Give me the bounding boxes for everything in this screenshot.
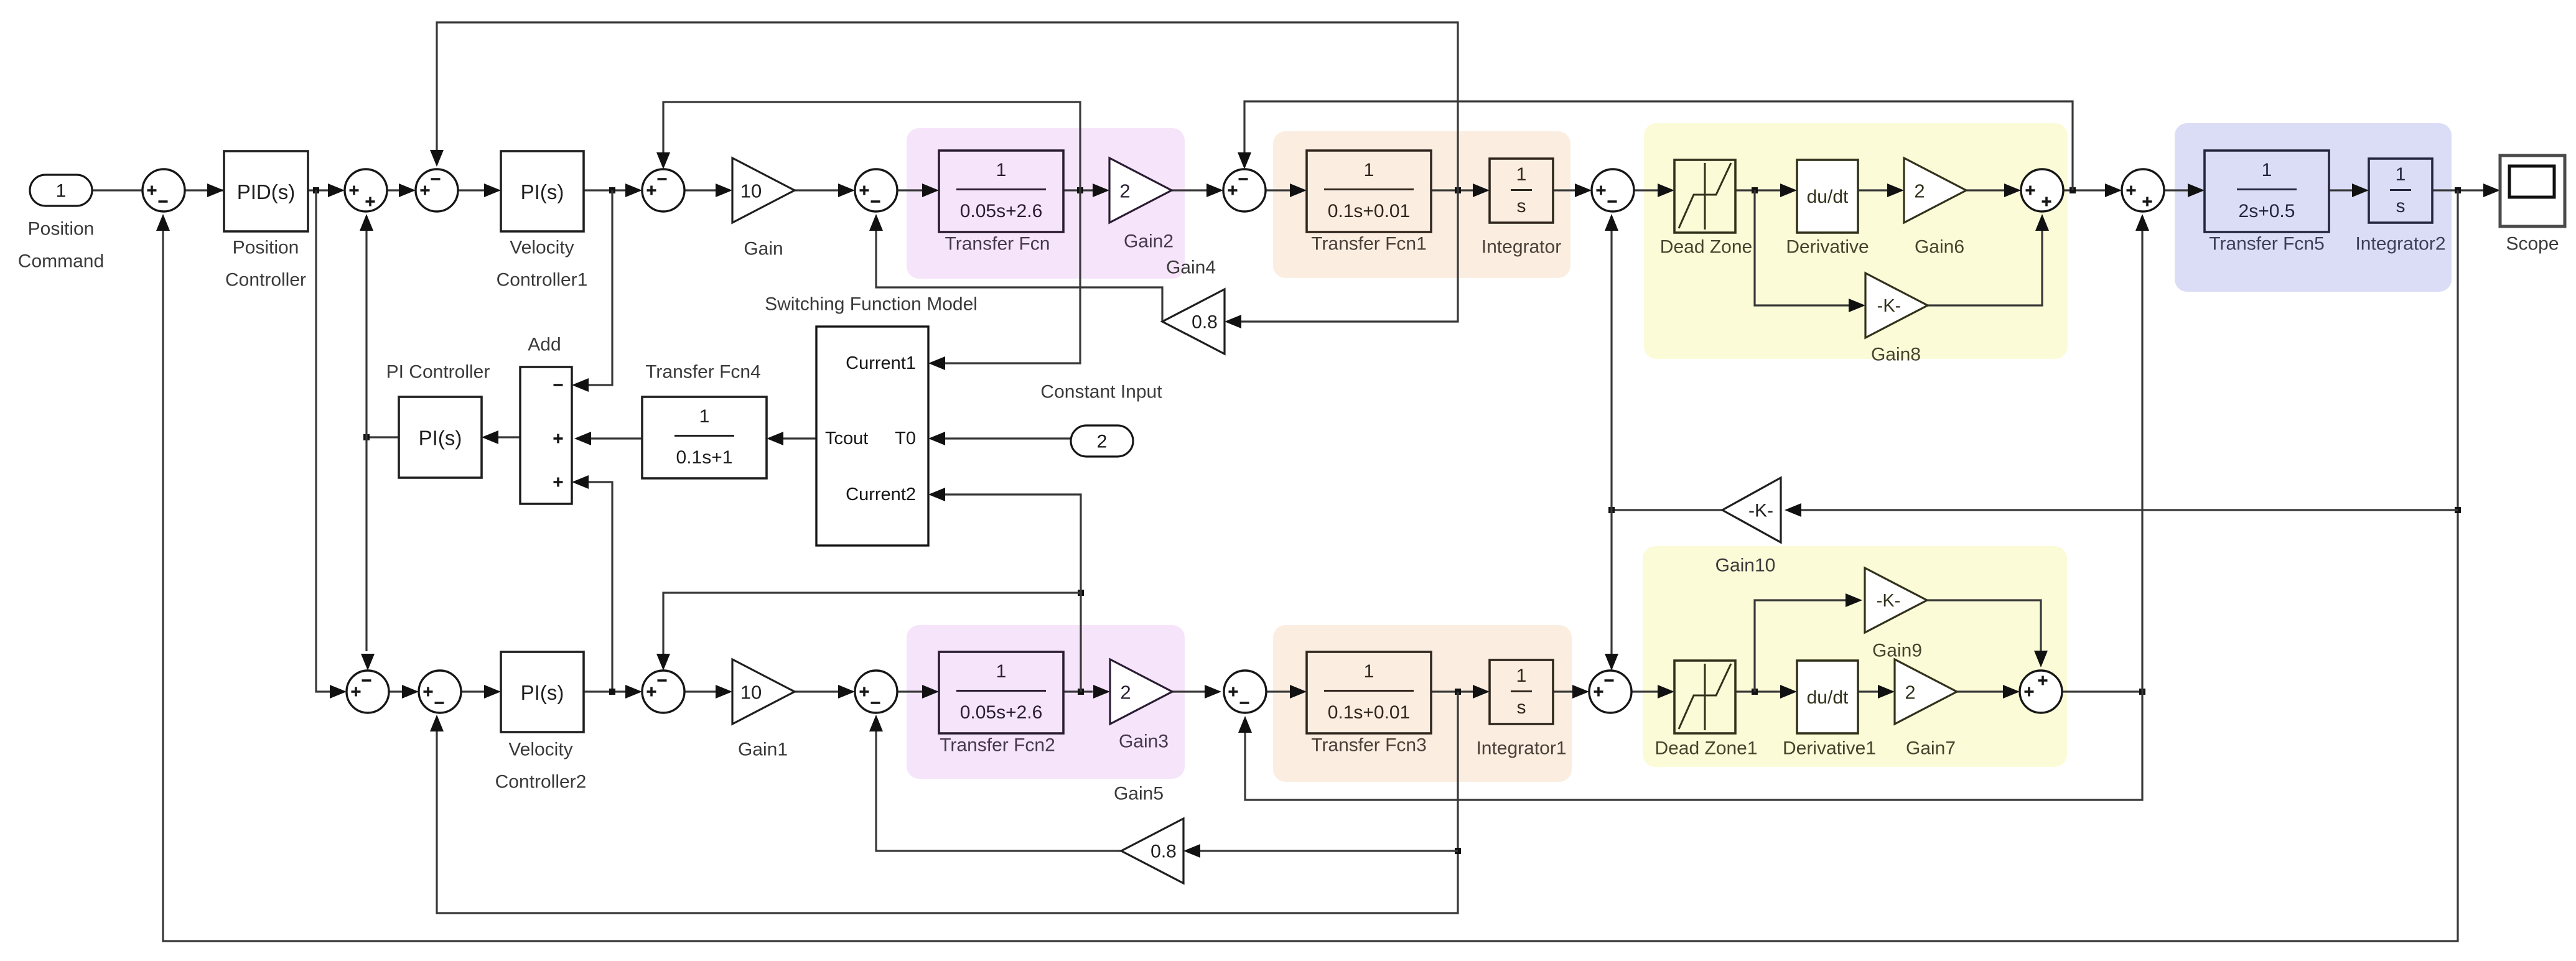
svg-text:10: 10 <box>740 682 762 703</box>
PI controller Velocity Controller1 <box>501 151 584 231</box>
sum7 position minus <box>1592 169 1634 211</box>
gain Gain value 10 <box>732 158 795 223</box>
svg-text:Gain5: Gain5 <box>1114 784 1164 804</box>
wire Sum5 to Transfer Fcn1 <box>1266 189 1290 191</box>
PID controller Position Controller <box>224 151 308 231</box>
svg-text:0.05s+2.6: 0.05s+2.6 <box>960 201 1043 221</box>
wire Gain8 output to Sum7 bottom <box>1928 231 2042 305</box>
sum9 combine channels <box>2122 169 2164 211</box>
transfer fcn Transfer Fcn1 <box>1307 151 1431 232</box>
wire SumD to Transfer Fcn2 <box>897 690 922 692</box>
svg-text:2: 2 <box>1119 180 1130 202</box>
wire Constant Input to T0 <box>945 437 1071 439</box>
svg-text:0.05s+2.6: 0.05s+2.6 <box>960 702 1043 723</box>
sum2 velocity cmd <box>345 169 387 211</box>
wire middle vertical to Sum6 bottom and Sum13 top <box>1610 231 1612 654</box>
wire Dead Zone1 to Derivative1 with branch <box>1735 690 1780 692</box>
svg-text:2: 2 <box>1905 682 1915 703</box>
highlight region orange (Transfer Fcn1 / Integrator) <box>1273 131 1570 278</box>
wire bottom output up to Sum8 bottom <box>2141 231 2143 692</box>
highlight region blue (Transfer Fcn5 / Integrator2) <box>2175 123 2452 292</box>
svg-text:du/dt: du/dt <box>1807 687 1849 708</box>
gain Gain10 value -K- <box>1722 478 1781 542</box>
svg-text:Transfer Fcn2: Transfer Fcn2 <box>940 735 1055 756</box>
add block Add <box>520 367 572 504</box>
svg-text:Controller: Controller <box>225 270 306 290</box>
wire Sum4 to Transfer Fcn <box>897 189 922 191</box>
svg-text:-K-: -K- <box>1877 591 1901 611</box>
derivative block Derivative1 <box>1797 661 1858 733</box>
sum8 after Gain6 <box>2021 169 2063 211</box>
sum position error <box>142 169 185 211</box>
svg-text:Gain3: Gain3 <box>1119 731 1169 752</box>
wire branch up to Gain9 input <box>1755 600 1846 692</box>
PI controller Velocity Controller2 <box>501 652 584 732</box>
svg-text:PI(s): PI(s) <box>521 180 564 203</box>
svg-text:PI Controller: PI Controller <box>386 362 490 383</box>
svg-text:10: 10 <box>740 180 762 202</box>
highlight region yellow (Dead Zone / Derivative / Gain6 / Gain8) <box>1644 123 2068 359</box>
svg-text:Tcout: Tcout <box>825 429 868 448</box>
svg-text:1: 1 <box>2262 160 2272 180</box>
svg-text:Transfer Fcn4: Transfer Fcn4 <box>645 362 761 383</box>
gain Gain6 value 2 <box>1904 158 1966 223</box>
svg-text:Transfer Fcn1: Transfer Fcn1 <box>1311 234 1427 254</box>
svg-text:2: 2 <box>1097 432 1108 452</box>
svg-text:1: 1 <box>996 160 1007 180</box>
highlight region yellow2 (Dead Zone1 / Derivative1 / Gain7 / Gain9) <box>1643 546 2067 767</box>
svg-text:1: 1 <box>1516 164 1527 185</box>
wire Gain to Sum4 <box>795 189 838 191</box>
svg-text:Transfer Fcn3: Transfer Fcn3 <box>1311 735 1427 756</box>
wire Gain3 to SumE <box>1172 690 1205 692</box>
svg-text:2: 2 <box>1120 682 1131 703</box>
wire branch down to Gain8 input <box>1755 190 1849 305</box>
wire Sum8 to Transfer Fcn5 <box>2164 189 2188 191</box>
wire Sum to Position Controller <box>185 189 224 191</box>
wire SumC to Gain1 <box>684 690 716 692</box>
svg-text:Current1: Current1 <box>846 353 916 373</box>
svg-text:Transfer Fcn: Transfer Fcn <box>945 234 1050 254</box>
svg-text:Current2: Current2 <box>846 485 916 504</box>
svg-text:0.1s+0.01: 0.1s+0.01 <box>1328 702 1411 723</box>
highlight region purple (Transfer Fcn / Gain2) <box>907 128 1185 279</box>
wire SumG output to junction <box>2062 690 2142 692</box>
input port 1 Position Command <box>30 175 92 206</box>
svg-text:Integrator2: Integrator2 <box>2355 234 2445 254</box>
wire Transfer Fcn4 to Add plus input <box>591 437 642 439</box>
wire Position Controller to Sum1 with branch <box>308 189 328 191</box>
sum4 current error outer <box>642 169 684 211</box>
svg-text:PID(s): PID(s) <box>237 180 296 203</box>
sumG output sum 2 <box>2020 671 2062 713</box>
wire Sum1 to Sum2 <box>387 189 399 191</box>
wire speed branch down to Gain4 input <box>1241 190 1458 322</box>
highlight region orange2 (Transfer Fcn3 / Integrator1) <box>1273 625 1572 782</box>
svg-text:Transfer Fcn5: Transfer Fcn5 <box>2209 234 2325 254</box>
sumF position minus 2 <box>1589 671 1631 713</box>
svg-text:1: 1 <box>1516 666 1527 686</box>
svg-text:2: 2 <box>1914 180 1925 202</box>
wire current feedback up-left into Sum4 top <box>663 102 1080 190</box>
integrator Integrator1 <box>1490 660 1553 724</box>
svg-text:Dead Zone1: Dead Zone1 <box>1654 738 1757 759</box>
svg-text:du/dt: du/dt <box>1807 187 1849 207</box>
wire Transfer Fcn to Gain2 <box>1063 189 1093 191</box>
integrator Integrator2 <box>2369 159 2432 223</box>
wire Tcout to Transfer Fcn4 <box>783 437 816 439</box>
wire position feedback down and left to Sum bottom <box>163 190 2458 941</box>
wire PI vertical to Sum1 bottom and SumA top <box>365 231 367 651</box>
svg-text:Gain7: Gain7 <box>1906 738 1956 759</box>
svg-text:2s+0.5: 2s+0.5 <box>2239 201 2295 221</box>
transfer fcn Transfer Fcn5 <box>2205 151 2329 232</box>
svg-text:-K-: -K- <box>1877 296 1902 316</box>
wire Integrator2 to Scope with branch <box>2432 189 2483 191</box>
svg-text:1: 1 <box>1364 160 1374 180</box>
svg-text:Command: Command <box>18 251 104 272</box>
sumD current error 2 <box>855 671 897 713</box>
wire Position Command to Sum <box>92 189 142 191</box>
wire Integrator1 to SumF <box>1553 690 1572 692</box>
svg-text:Position: Position <box>28 219 95 239</box>
wire Derivative1 to Gain7 <box>1858 690 1878 692</box>
svg-text:s: s <box>2396 196 2406 216</box>
wire bottom feedback down-left to SumE bottom <box>1245 692 2142 800</box>
gain Gain9 value -K- <box>1865 568 1927 633</box>
wire speed2 feedback down-left to SumB bottom <box>437 692 1458 913</box>
gain Gain7 value 2 <box>1895 659 1957 724</box>
sumB velocity error 2 <box>419 671 461 713</box>
wire Gain9 output to SumG top <box>1927 600 2041 651</box>
sum5 current error <box>855 169 897 211</box>
svg-text:Gain6: Gain6 <box>1915 237 1964 258</box>
svg-text:Gain8: Gain8 <box>1871 345 1921 365</box>
gain Gain1 value 10 <box>732 659 795 724</box>
wire Sum6 to Dead Zone <box>1634 189 1658 191</box>
transfer fcn Transfer Fcn4 <box>642 397 767 478</box>
svg-text:Integrator1: Integrator1 <box>1476 738 1566 759</box>
svg-text:-K-: -K- <box>1748 501 1773 521</box>
svg-text:s: s <box>1517 697 1526 718</box>
svg-text:Dead Zone: Dead Zone <box>1660 237 1752 258</box>
wire Gain2 to Sum5 <box>1172 189 1206 191</box>
wire feedback up-left into Sum5 top <box>1244 101 2073 190</box>
wire speed feedback up to Sum2 top <box>437 22 1458 190</box>
svg-text:Constant Input: Constant Input <box>1040 382 1162 402</box>
gain Gain5 value 0.8 <box>1121 819 1183 883</box>
wire Add output to PI Controller <box>498 436 520 438</box>
wire Integrator to Sum6 <box>1553 189 1575 191</box>
svg-text:Velocity: Velocity <box>510 238 574 258</box>
sum6 torque <box>1223 169 1266 211</box>
svg-text:1: 1 <box>56 181 67 202</box>
svg-text:Gain10: Gain10 <box>1715 555 1776 576</box>
transfer fcn Transfer Fcn2 <box>939 652 1063 733</box>
transfer fcn Transfer Fcn3 <box>1307 652 1431 733</box>
gain Gain8 value -K- <box>1865 273 1928 338</box>
wire branch PID down to bottom Sum <box>316 190 330 692</box>
wire SumE to Transfer Fcn3 <box>1266 690 1290 692</box>
svg-text:PI(s): PI(s) <box>521 681 564 704</box>
constant input oval value 2 <box>1071 425 1133 457</box>
svg-text:Position: Position <box>233 238 299 258</box>
wire Velocity Controller2 to SumC with branch <box>584 690 625 692</box>
PI controller middle PI(s) <box>399 397 482 478</box>
wire Transfer Fcn3 to Integrator1 with branch <box>1431 690 1473 692</box>
wire Gain7 to SumG <box>1957 690 2003 692</box>
svg-text:0.1s+1: 0.1s+1 <box>676 447 733 468</box>
wire Velocity Controller1 to Sum3 with branch <box>584 189 625 191</box>
wire position branch to Gain10 input <box>1801 509 2458 511</box>
svg-text:0.1s+0.01: 0.1s+0.01 <box>1328 201 1411 221</box>
wire Derivative to Gain6 <box>1858 189 1887 191</box>
wire Gain1 to SumD <box>795 690 838 692</box>
svg-text:Controller2: Controller2 <box>495 772 587 792</box>
sum3 velocity error <box>416 169 458 211</box>
svg-text:1: 1 <box>699 406 710 427</box>
wire speed2 branch to Gain5 input <box>1200 850 1458 852</box>
sumA add2 output sum <box>347 671 389 713</box>
wire current2 feedback up-left into SumC top <box>663 593 1081 654</box>
sumC current error outer 2 <box>642 671 684 713</box>
wire Transfer Fcn1 to Integrator with branch <box>1431 189 1473 191</box>
svg-text:Gain1: Gain1 <box>738 740 788 760</box>
wire current branch down to Current1 <box>945 190 1080 363</box>
wire current2 branch up to Current2 port <box>945 494 1081 692</box>
svg-text:Gain9: Gain9 <box>1872 641 1922 661</box>
wire Gain4 output to Sum4 bottom <box>876 231 1162 322</box>
svg-text:PI(s): PI(s) <box>419 427 462 450</box>
sumE torque 2 <box>1224 671 1266 713</box>
integrator Integrator <box>1490 159 1553 223</box>
wire branch VC1 down to Add minus input <box>589 190 612 385</box>
wire Dead Zone to Derivative with branch <box>1735 189 1780 191</box>
svg-text:Derivative: Derivative <box>1786 237 1869 258</box>
svg-text:0.8: 0.8 <box>1150 842 1177 862</box>
wire PI Controller output to vertical <box>366 436 399 438</box>
wire Transfer Fcn2 to Gain3 with branches <box>1063 690 1093 692</box>
svg-text:T0: T0 <box>895 429 916 448</box>
svg-text:Add: Add <box>528 335 561 355</box>
svg-text:Gain2: Gain2 <box>1124 231 1174 252</box>
wire SumA to SumB <box>389 690 402 692</box>
wire Sum3 to Gain <box>684 189 716 191</box>
svg-text:1: 1 <box>2396 164 2406 185</box>
highlight region purple2 (Transfer Fcn2 / Gain3) <box>907 625 1185 779</box>
svg-text:s: s <box>1517 196 1526 216</box>
svg-text:0.8: 0.8 <box>1192 312 1218 333</box>
wire Sum2 to Velocity Controller1 <box>458 189 484 191</box>
svg-text:Integrator: Integrator <box>1482 237 1561 258</box>
wire Add bottom plus from VC2 branch <box>589 482 612 692</box>
wire Gain5 output to SumD bottom <box>876 731 1121 851</box>
svg-text:1: 1 <box>1364 661 1374 682</box>
svg-text:Scope: Scope <box>2506 234 2559 254</box>
svg-text:Switching Function Model: Switching Function Model <box>765 294 978 315</box>
wire Sum7 to Sum8 with branch <box>2063 189 2105 191</box>
wire SumF to Dead Zone1 <box>1631 690 1658 692</box>
svg-text:Controller1: Controller1 <box>497 270 588 290</box>
svg-text:Velocity: Velocity <box>508 740 572 760</box>
wire SumB to Velocity Controller2 <box>461 690 484 692</box>
gain Gain2 value 2 <box>1109 158 1172 223</box>
scope block Scope <box>2500 156 2565 226</box>
dead zone block Dead Zone <box>1674 160 1735 233</box>
subsystem Switching Function Model <box>816 327 928 545</box>
gain Gain4 value 0.8 <box>1162 289 1225 354</box>
wire Gain10 output to middle vertical <box>1612 509 1722 511</box>
svg-text:Gain: Gain <box>744 239 783 259</box>
svg-text:1: 1 <box>996 661 1007 682</box>
svg-text:Gain4: Gain4 <box>1166 258 1216 278</box>
dead zone block Dead Zone1 <box>1674 661 1735 733</box>
derivative block Derivative <box>1797 160 1858 233</box>
wire Gain6 to Sum7 <box>1966 189 2004 191</box>
gain Gain3 value 2 <box>1110 659 1172 724</box>
svg-text:Derivative1: Derivative1 <box>1783 738 1876 759</box>
wire Transfer Fcn5 to Integrator2 <box>2329 189 2352 191</box>
transfer fcn Transfer Fcn <box>939 151 1063 232</box>
